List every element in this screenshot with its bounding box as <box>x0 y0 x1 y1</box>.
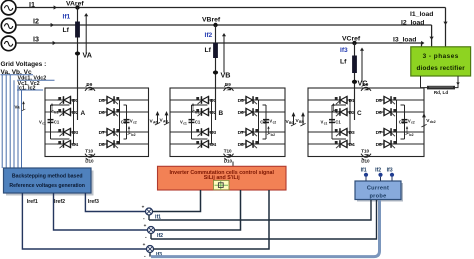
svg-text:probe: probe <box>369 193 386 199</box>
svg-text:C: C <box>357 110 362 117</box>
wire right cells bus leg C <box>396 100 398 144</box>
wire measurement bus 5 to controller <box>17 85 19 168</box>
voltage arrow VB0 <box>286 112 297 126</box>
wire leg B to control box stub <box>232 162 234 167</box>
node VBref <box>202 16 221 27</box>
capacitor C2 leg B <box>260 105 276 139</box>
inverter leg C outer box <box>308 88 424 157</box>
svg-text:If3: If3 <box>387 168 393 174</box>
IGBT cell D7 leg A <box>99 128 149 136</box>
wire measurement bus 6 to controller <box>21 90 23 168</box>
voltage arrow VBN <box>296 112 306 126</box>
svg-text:I2_load: I2_load <box>401 19 424 26</box>
label Ic1, Ic2 <box>17 86 43 92</box>
wire If2 feedback from probe <box>151 200 377 239</box>
capacitor C2 leg A <box>121 105 137 139</box>
svg-text:D7: D7 <box>238 130 244 136</box>
chopper switch T9/D9 leg A <box>85 82 95 91</box>
summing junction 3 (If3) <box>143 242 154 259</box>
svg-text:D9: D9 <box>86 82 92 87</box>
summing junction 2 (If2) <box>144 223 155 240</box>
IGBT cell D2 leg A <box>45 108 79 116</box>
probe terminal If2 <box>375 168 383 181</box>
backstepping controller box <box>4 168 94 196</box>
node VB <box>213 71 231 80</box>
svg-text:+: + <box>144 223 147 228</box>
wire Iref1 <box>22 193 146 249</box>
IGBT cell D4 leg B <box>170 140 217 148</box>
svg-text:VCref: VCref <box>342 35 361 42</box>
IGBT cell D1 leg B <box>170 96 217 104</box>
node B (phase connection) <box>216 88 224 120</box>
svg-text:B: B <box>219 110 224 117</box>
svg-text:T10: T10 <box>85 148 93 153</box>
node A (phase connection) <box>78 88 86 120</box>
wire rectifier DC plus <box>455 76 460 88</box>
current arrow If2 <box>222 33 226 73</box>
svg-text:If3: If3 <box>340 47 348 54</box>
chopper switch T9/D9 leg C <box>361 82 371 91</box>
current arrow If1 <box>84 13 88 54</box>
svg-text:I1_load: I1_load <box>410 11 433 18</box>
svg-text:D8: D8 <box>99 142 105 148</box>
chopper switch T10/D10 leg A <box>85 148 95 163</box>
svg-text:If2: If2 <box>157 233 163 239</box>
svg-text:+: + <box>142 205 145 210</box>
svg-text:I1: I1 <box>29 0 35 9</box>
wire error signal 3 to control box <box>153 190 269 249</box>
capacitor C1 leg B <box>180 103 208 139</box>
IGBT cell D2 leg B <box>170 108 217 116</box>
wire grid line phase 1 to load <box>16 5 446 9</box>
AC grid source phase 1 <box>1 0 16 15</box>
svg-text:If2: If2 <box>205 32 213 39</box>
IGBT cell D4 leg C <box>308 140 355 148</box>
inductor Lf phase A <box>63 22 80 38</box>
wire measurement bus 4 to controller <box>13 80 15 168</box>
IGBT cell D7 leg B <box>238 128 285 136</box>
wire left cells bus leg C <box>349 100 351 144</box>
node VAref <box>66 0 84 9</box>
wire error signal 2 to control box <box>154 190 240 230</box>
svg-text:VAref: VAref <box>66 0 84 7</box>
wire Iref3 <box>85 193 145 212</box>
wire I1_load drop to rectifier <box>443 8 447 48</box>
wire right cells bus leg B <box>258 100 260 144</box>
svg-text:D8: D8 <box>238 142 244 148</box>
IGBT cell D7 leg C <box>376 128 424 136</box>
AC grid source phase 2 <box>1 18 16 33</box>
chopper switch T10/D10 leg C <box>361 148 371 163</box>
svg-text:Grid Voltages :: Grid Voltages : <box>1 61 47 68</box>
wire measurement bus 1 to controller <box>1 75 3 168</box>
svg-text:Iref3: Iref3 <box>88 199 99 205</box>
svg-text:D6: D6 <box>238 110 244 116</box>
wire phase B branch <box>215 25 217 120</box>
svg-text:D10: D10 <box>85 159 94 164</box>
svg-text:-: - <box>144 253 146 259</box>
svg-text:D5: D5 <box>376 98 382 104</box>
svg-text:c2: c2 <box>273 120 277 124</box>
svg-text:Backstepping method based: Backstepping method based <box>12 174 83 180</box>
load Rd,Ld bar <box>427 86 455 95</box>
svg-text:c1: c1 <box>183 121 187 125</box>
svg-text:I3_load: I3_load <box>393 36 416 43</box>
svg-text:VBref: VBref <box>202 16 221 23</box>
summing junction 1 (If1) <box>142 205 153 222</box>
wire rectifier DC minus <box>421 76 428 88</box>
voltage arrow VA0 <box>150 111 161 125</box>
svg-text:If1: If1 <box>361 168 367 174</box>
svg-text:Va: Va <box>15 105 21 110</box>
IGBT cell D3 leg B <box>170 128 217 136</box>
svg-text:D10: D10 <box>224 159 233 164</box>
svg-text:3 - phases: 3 - phases <box>423 53 459 60</box>
IGBT cell D5 leg A <box>99 96 149 104</box>
svg-text:Iref2: Iref2 <box>54 199 65 205</box>
label Vdc1, Vdc2 <box>17 76 55 82</box>
IGBT cell D4 leg A <box>45 140 79 148</box>
svg-text:VB: VB <box>221 71 231 80</box>
svg-text:A: A <box>81 110 86 117</box>
svg-text:D6: D6 <box>376 110 382 116</box>
svg-text:Ic1, Ic2: Ic1, Ic2 <box>18 86 36 92</box>
wire I3_load entry to rectifier <box>421 41 424 47</box>
capacitor C1 leg A <box>39 103 70 139</box>
svg-text:I2: I2 <box>33 17 39 26</box>
svg-text:D9: D9 <box>362 82 368 87</box>
chopper switch T10/D10 leg B <box>224 148 234 163</box>
probe terminal If1 <box>361 168 369 181</box>
wire left cells bus leg B <box>211 100 213 144</box>
svg-text:D5: D5 <box>238 98 244 104</box>
svg-text:Lf: Lf <box>205 47 212 54</box>
wire phase A branch <box>77 8 79 121</box>
voltage arrow Va on bus <box>15 101 26 111</box>
IGBT cell D1 leg C <box>308 96 355 104</box>
current probe box <box>355 181 403 202</box>
svg-text:Ic2: Ic2 <box>409 133 414 137</box>
svg-text:diodes rectifier: diodes rectifier <box>417 65 466 72</box>
IGBT cell D1 leg A <box>45 96 79 104</box>
IGBT cell D3 leg C <box>308 128 355 136</box>
svg-text:C2: C2 <box>399 119 405 124</box>
scope icon in control box <box>214 180 230 189</box>
svg-text:C2: C2 <box>260 119 266 124</box>
inverter leg B outer box <box>170 88 285 157</box>
IGBT cell D6 leg C <box>376 108 424 116</box>
svg-text:Ic1: Ic1 <box>54 111 59 115</box>
inverter commutation control box <box>158 166 287 190</box>
wire phase C branch <box>354 43 356 120</box>
probe terminal If3 <box>387 168 395 181</box>
svg-text:c2: c2 <box>133 120 137 124</box>
svg-text:B0: B0 <box>289 121 293 125</box>
svg-text:c1: c1 <box>324 121 328 125</box>
capacitor C1 leg C <box>321 103 347 139</box>
svg-text:VA: VA <box>83 51 92 60</box>
node VC <box>352 79 368 88</box>
inductor Lf phase B <box>205 43 218 58</box>
wire right cells bus leg A <box>119 100 121 144</box>
svg-text:Lf: Lf <box>63 27 70 34</box>
3-phase diodes rectifier box <box>411 47 471 76</box>
svg-text:C1: C1 <box>335 119 341 124</box>
svg-text:Ic1: Ic1 <box>195 111 200 115</box>
svg-text:D5: D5 <box>99 98 105 104</box>
svg-text:D7: D7 <box>376 130 382 136</box>
chopper switch T9/D9 leg B <box>224 82 234 91</box>
node VCref <box>342 35 361 45</box>
svg-text:Ic1: Ic1 <box>336 111 341 115</box>
svg-text:D8: D8 <box>376 142 382 148</box>
IGBT cell D8 leg C <box>376 140 424 148</box>
wire I2_load drop to rectifier <box>429 25 433 47</box>
voltage arrow VAN <box>160 111 170 125</box>
svg-text:If2: If2 <box>375 168 381 174</box>
wire grid line phase 3 to load <box>16 41 422 45</box>
IGBT cell D5 leg C <box>376 96 424 104</box>
svg-text:Current: Current <box>367 185 389 191</box>
capacitor C2 leg C <box>399 105 415 139</box>
IGBT cell D2 leg C <box>308 108 355 116</box>
svg-text:c1: c1 <box>42 121 46 125</box>
svg-text:C2: C2 <box>121 119 127 124</box>
IGBT cell D8 leg B <box>238 140 285 148</box>
wire left cells bus leg A <box>73 100 75 144</box>
svg-text:+: + <box>143 242 146 247</box>
voltage arrow Vdc2 on DC rail <box>421 113 435 127</box>
IGBT cell D6 leg A <box>99 108 149 116</box>
svg-text:D9: D9 <box>225 82 231 87</box>
svg-text:D10: D10 <box>361 159 370 164</box>
AC grid source phase 3 <box>1 36 16 51</box>
svg-text:T10: T10 <box>361 148 369 153</box>
svg-text:-: - <box>145 234 147 240</box>
svg-text:D6: D6 <box>99 110 105 116</box>
current arrow If3 <box>360 48 364 82</box>
svg-text:C1: C1 <box>195 119 201 124</box>
inductor Lf phase C <box>340 56 357 74</box>
wire If1 feedback from probe <box>149 200 371 220</box>
svg-text:Reference voltages generation: Reference voltages generation <box>9 183 85 189</box>
wire measurement bus 3 to controller <box>9 75 11 168</box>
svg-text:Rd, Ld: Rd, Ld <box>434 90 448 95</box>
wire measurement bus 2 to controller <box>5 75 7 168</box>
svg-text:If1: If1 <box>63 14 71 21</box>
svg-text:D7: D7 <box>99 130 105 136</box>
svg-text:C1: C1 <box>54 119 60 124</box>
wire error signal 1 to control box <box>152 190 200 212</box>
node VA <box>75 51 92 60</box>
svg-text:I3: I3 <box>33 35 39 44</box>
wire Iref2 <box>54 193 148 230</box>
inverter leg A outer box <box>45 88 149 157</box>
svg-text:Ic2: Ic2 <box>131 133 136 137</box>
svg-text:T10: T10 <box>224 148 232 153</box>
IGBT cell D3 leg A <box>45 128 79 136</box>
svg-text:Lf: Lf <box>340 59 347 66</box>
IGBT cell D5 leg B <box>238 96 285 104</box>
wire grid line phase 2 to load <box>16 23 432 27</box>
node C (phase connection) <box>355 88 363 120</box>
wire If3 feedback from probe (thick) <box>149 252 151 256</box>
label Va, Vb, Vc <box>1 69 34 76</box>
svg-text:c2: c2 <box>411 120 415 124</box>
svg-text:Iref1: Iref1 <box>27 199 38 205</box>
IGBT cell D8 leg A <box>99 140 149 148</box>
svg-text:Ic2: Ic2 <box>271 133 276 137</box>
svg-text:BN: BN <box>299 120 304 124</box>
svg-text:dc2: dc2 <box>430 120 436 124</box>
IGBT cell D6 leg B <box>238 108 285 116</box>
svg-text:-: - <box>143 216 145 222</box>
